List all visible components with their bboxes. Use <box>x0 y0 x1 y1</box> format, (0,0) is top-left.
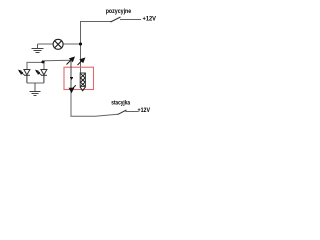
svg-text:+12V: +12V <box>143 17 157 23</box>
svg-text:+12V: +12V <box>138 108 151 114</box>
svg-text:stacyjka: stacyjka <box>111 100 130 106</box>
svg-text:pozycyjne: pozycyjne <box>106 9 132 15</box>
